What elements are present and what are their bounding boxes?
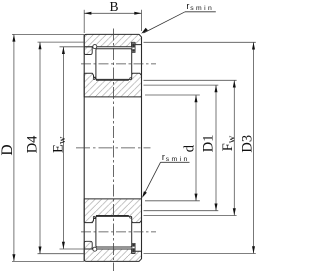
B dimension line: [84, 12, 141, 14]
flange undercut radius (right): [130, 78, 132, 80]
bottom half of bearing section (mirrored geometry, same hatch direction): [84, 199, 141, 262]
snap ring (retaining ring in outer-ring groove): [132, 42, 135, 52]
dimension D3: [253, 42, 255, 253]
svg-text:D3: D3: [239, 135, 255, 153]
svg-text:Ew: Ew: [51, 136, 68, 153]
dimension Ew: [62, 47, 64, 249]
top roller horizontal centerline: [81, 63, 156, 65]
rsmin leader (middle, points to inner-ring bore corner): [142, 152, 190, 198]
svg-text:d: d: [182, 144, 198, 152]
bottom roller horizontal centerline: [81, 231, 156, 233]
right face line (full height): [141, 37, 143, 259]
rsmin leader (top right): [141, 1, 216, 34]
dimension D4: [39, 42, 41, 254]
seal ring (small circle in outer ring lip corner): [93, 45, 97, 49]
top half of bearing section (mirrored below for bottom half): [84, 34, 141, 97]
svg-text:B: B: [109, 0, 118, 14]
outer ring (bottom section, hatched): [84, 241, 141, 261]
left face line (full height): [83, 35, 85, 262]
dimension Fw: [233, 80, 235, 215]
outer-ring seal retaining lip (bottom): [84, 241, 92, 249]
seal ring (bottom lip corner): [93, 247, 97, 251]
right extension lines (top): D3, Fw, D1, d: [144, 41, 256, 43]
flange undercut radius (bottom left): [93, 216, 95, 218]
roller vertical centerline: [113, 29, 115, 272]
snap ring (bottom): [132, 243, 135, 253]
svg-text:D4: D4: [25, 135, 41, 153]
svg-text:D: D: [0, 144, 16, 155]
svg-text:Fw: Fw: [220, 135, 237, 151]
dimension d: [195, 95, 197, 201]
svg-text:rsmin: rsmin: [186, 1, 214, 12]
right extension lines (bottom): [144, 253, 256, 255]
outer ring (top section, hatched): [84, 34, 141, 54]
dimension D1: [215, 85, 217, 211]
cylindrical roller (bottom): [96, 216, 132, 247]
flange undercut radius (left): [93, 78, 95, 80]
svg-text:D1: D1: [200, 134, 216, 152]
left extension lines: D, D4, Ew (top): [12, 33, 84, 35]
dimension D: [13, 34, 15, 261]
outer-ring seal retaining lip: [84, 47, 92, 55]
inner ring (bottom section, hatched): [84, 199, 141, 223]
cylindrical roller (top): [96, 49, 132, 80]
inner ring (top section, hatched): [84, 73, 141, 97]
flange undercut radius (bottom right): [130, 216, 132, 218]
bearing axis centerline: [76, 147, 151, 149]
B dimension extension lines: [83, 10, 85, 33]
svg-text:rsmin: rsmin: [162, 152, 190, 163]
left extension lines (bottom): [12, 260, 84, 262]
